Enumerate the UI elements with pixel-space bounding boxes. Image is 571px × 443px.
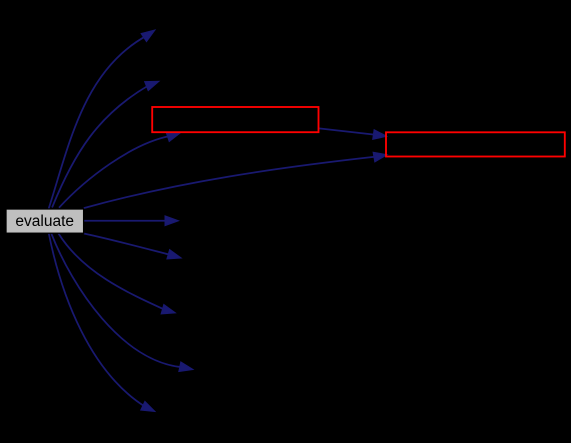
svg-text:evaluate: evaluate <box>15 213 74 230</box>
